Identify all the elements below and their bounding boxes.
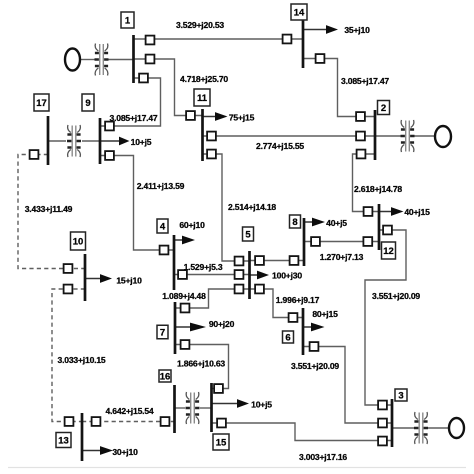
svg-text:10: 10 xyxy=(73,236,84,247)
svg-text:100+j30: 100+j30 xyxy=(272,271,302,281)
svg-text:3.085+j17.47: 3.085+j17.47 xyxy=(109,113,157,123)
svg-text:35+j10: 35+j10 xyxy=(344,25,370,35)
svg-text:3.003+j17.16: 3.003+j17.16 xyxy=(299,452,347,462)
svg-text:90+j20: 90+j20 xyxy=(209,319,235,329)
svg-text:2.514+j14.18: 2.514+j14.18 xyxy=(228,202,276,212)
svg-text:15: 15 xyxy=(216,437,227,448)
svg-text:11: 11 xyxy=(197,93,208,104)
svg-text:15+j10: 15+j10 xyxy=(116,276,142,286)
svg-text:8: 8 xyxy=(292,217,297,228)
svg-text:75+j15: 75+j15 xyxy=(229,113,255,123)
svg-text:40+j5: 40+j5 xyxy=(326,218,347,228)
svg-text:3.551+j20.09: 3.551+j20.09 xyxy=(291,361,339,371)
svg-text:9: 9 xyxy=(85,98,90,109)
svg-text:6: 6 xyxy=(285,332,290,343)
svg-text:80+j15: 80+j15 xyxy=(312,309,338,319)
svg-text:4.718+j25.70: 4.718+j25.70 xyxy=(180,74,228,84)
svg-text:1.996+j9.17: 1.996+j9.17 xyxy=(276,295,320,305)
svg-text:1.270+j7.13: 1.270+j7.13 xyxy=(320,252,364,262)
svg-text:3.085+j17.47: 3.085+j17.47 xyxy=(341,76,389,86)
svg-text:3.433+j11.49: 3.433+j11.49 xyxy=(25,204,73,214)
svg-text:14: 14 xyxy=(294,7,305,18)
svg-text:3.033+j10.15: 3.033+j10.15 xyxy=(57,355,105,365)
svg-text:3.551+j20.09: 3.551+j20.09 xyxy=(372,291,420,301)
svg-text:16: 16 xyxy=(160,371,171,382)
svg-text:4.642+j15.54: 4.642+j15.54 xyxy=(105,406,153,416)
svg-text:2: 2 xyxy=(381,103,386,114)
svg-text:2.774+j15.55: 2.774+j15.55 xyxy=(256,141,304,151)
svg-text:13: 13 xyxy=(58,435,69,446)
svg-text:30+j10: 30+j10 xyxy=(112,447,138,457)
svg-text:12: 12 xyxy=(383,246,394,257)
svg-text:60+j10: 60+j10 xyxy=(179,220,205,230)
svg-text:2.618+j14.78: 2.618+j14.78 xyxy=(354,184,402,194)
svg-text:7: 7 xyxy=(160,327,165,338)
svg-text:1: 1 xyxy=(125,15,131,26)
svg-text:3.529+j20.53: 3.529+j20.53 xyxy=(176,20,224,30)
svg-text:10+j5: 10+j5 xyxy=(251,400,272,410)
svg-text:10+j5: 10+j5 xyxy=(131,137,152,147)
svg-text:1.529+j5.3: 1.529+j5.3 xyxy=(184,262,223,272)
svg-text:3: 3 xyxy=(398,390,403,401)
svg-text:1.089+j4.48: 1.089+j4.48 xyxy=(162,291,206,301)
svg-text:40+j15: 40+j15 xyxy=(404,207,430,217)
svg-text:4: 4 xyxy=(160,221,166,232)
svg-text:17: 17 xyxy=(36,98,47,109)
svg-text:2.411+j13.59: 2.411+j13.59 xyxy=(137,181,185,191)
svg-text:5: 5 xyxy=(245,229,251,240)
svg-text:1.866+j10.63: 1.866+j10.63 xyxy=(177,359,225,369)
